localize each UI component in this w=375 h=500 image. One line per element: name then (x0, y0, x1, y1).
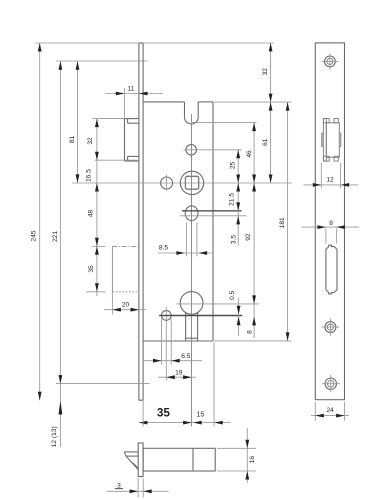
dimension 8.5 (158, 245, 213, 255)
dimension 61 (262, 102, 272, 183)
faceplate front view plate (315, 43, 344, 400)
svg-text:8.5: 8.5 (159, 245, 168, 252)
chain dimension line x=96.9 (96, 119, 98, 296)
svg-text:81: 81 (69, 136, 76, 144)
cylinder slot to case bottom (186, 312, 198, 341)
dimension chain x=270.6 (270, 43, 272, 183)
svg-text:21.5: 21.5 (229, 193, 236, 206)
oval hole reference lines (180, 211, 247, 216)
dimension 46 (246, 123, 256, 183)
dimension 3.5 (231, 216, 240, 244)
svg-text:48: 48 (87, 210, 94, 218)
wire case top extension (214, 101, 292, 103)
latch bolt head (protruding) (125, 119, 139, 161)
dimension 19 (158, 369, 196, 379)
dimension 21.5 (229, 183, 240, 211)
svg-text:221: 221 (52, 231, 59, 242)
dimension 12(13) (51, 401, 62, 448)
dimension 48 (87, 183, 98, 246)
svg-text:181: 181 (279, 217, 286, 228)
svg-text:15: 15 (197, 411, 205, 418)
latch guide hole (184, 145, 242, 156)
dimension chain x=238.2 (237, 150, 239, 246)
dimension 8 main view (246, 317, 256, 334)
screw hole bottom (322, 375, 340, 393)
svg-text:3: 3 (117, 482, 121, 489)
bottom view faceplate section (138, 443, 143, 477)
wire extension line bottom-screw-axis y=383.6 (56, 383, 149, 385)
wire extension line faceplate-top y=43 (35, 42, 274, 44)
hole tangent extension lines (162, 318, 172, 364)
vertical centerline (191, 114, 193, 427)
dimension 0.5 (229, 290, 240, 336)
dimension 35 left (88, 246, 99, 291)
lock case outline (143, 102, 213, 341)
svg-text:46: 46 (246, 150, 253, 158)
dimension 25 (230, 150, 240, 183)
latch slot notch in case top (185, 102, 199, 124)
dimension 3 (107, 479, 169, 498)
svg-text:24: 24 (327, 407, 335, 414)
fixing hole lower-left (161, 307, 171, 381)
dimension 24 (311, 402, 349, 421)
screw hole middle (322, 318, 340, 336)
dimension 81 (69, 61, 79, 183)
svg-text:6.5: 6.5 (181, 353, 190, 360)
svg-text:25: 25 (230, 162, 237, 170)
follower axis line y=183 (72, 182, 292, 184)
dimension 221 (52, 61, 62, 447)
svg-text:35: 35 (157, 406, 171, 420)
svg-text:16: 16 (249, 456, 256, 464)
svg-text:12: 12 (326, 177, 334, 184)
cylinder hole circle (180, 292, 203, 315)
dimension 11 (105, 86, 163, 118)
wire deadbolt top extension (92, 245, 106, 247)
oval adjustment hole (185, 206, 198, 221)
svg-text:8: 8 (246, 330, 253, 334)
dimension 8 faceplate (302, 220, 360, 244)
dimension 181 (279, 102, 290, 341)
svg-text:19: 19 (175, 369, 183, 376)
handle fixing hole left (161, 175, 173, 191)
screw hole top (322, 53, 338, 70)
wire case bottom extension (215, 340, 292, 342)
svg-text:35: 35 (88, 265, 95, 273)
wire latch top extension (92, 118, 124, 120)
bottom view latch body (143, 448, 215, 471)
svg-text:32: 32 (87, 137, 94, 145)
svg-text:12 (13): 12 (13) (51, 426, 58, 447)
dimension 16.5 (86, 169, 93, 182)
dimension 92 (245, 183, 256, 304)
svg-text:245: 245 (30, 230, 37, 241)
dimension 32 left (87, 119, 99, 161)
dimension 12 faceplate (304, 163, 359, 189)
dimension 20 (104, 293, 146, 315)
wire deadbolt bottom extension (86, 291, 106, 293)
svg-text:20: 20 (122, 302, 130, 309)
svg-text:61: 61 (262, 138, 269, 146)
dimension 35 backset (bold) and 15 (139, 342, 231, 427)
svg-text:0.5: 0.5 (229, 290, 236, 299)
svg-text:8: 8 (329, 220, 333, 227)
deadbolt (thrown, phantom lines) (112, 246, 138, 291)
svg-text:92: 92 (245, 233, 252, 241)
wire latch bottom extension (95, 159, 138, 161)
dimension 6.5 (144, 353, 202, 362)
svg-text:11: 11 (127, 86, 134, 93)
dimension 16 (217, 428, 256, 483)
bottom view latch bevel head (124, 452, 138, 470)
cylinder axis extension (177, 303, 260, 305)
svg-text:16.5: 16.5 (86, 169, 93, 182)
keyhole slot stem extension lines (186, 222, 197, 256)
latch opening with latch (321, 119, 341, 162)
faceplate side view (139, 43, 143, 400)
svg-text:32: 32 (262, 68, 269, 76)
dimension 32 right (262, 43, 272, 102)
deadbolt opening (326, 245, 337, 294)
follower with square spindle hole (180, 171, 203, 194)
svg-text:3.5: 3.5 (231, 235, 238, 244)
dimension 245 (30, 43, 41, 400)
wire latch slot bottom extension (191, 122, 257, 124)
hole axis line B (159, 315, 242, 317)
dimension chain x=254.1 (253, 123, 255, 338)
wire extension line top-screw-axis y=61 (56, 60, 148, 62)
